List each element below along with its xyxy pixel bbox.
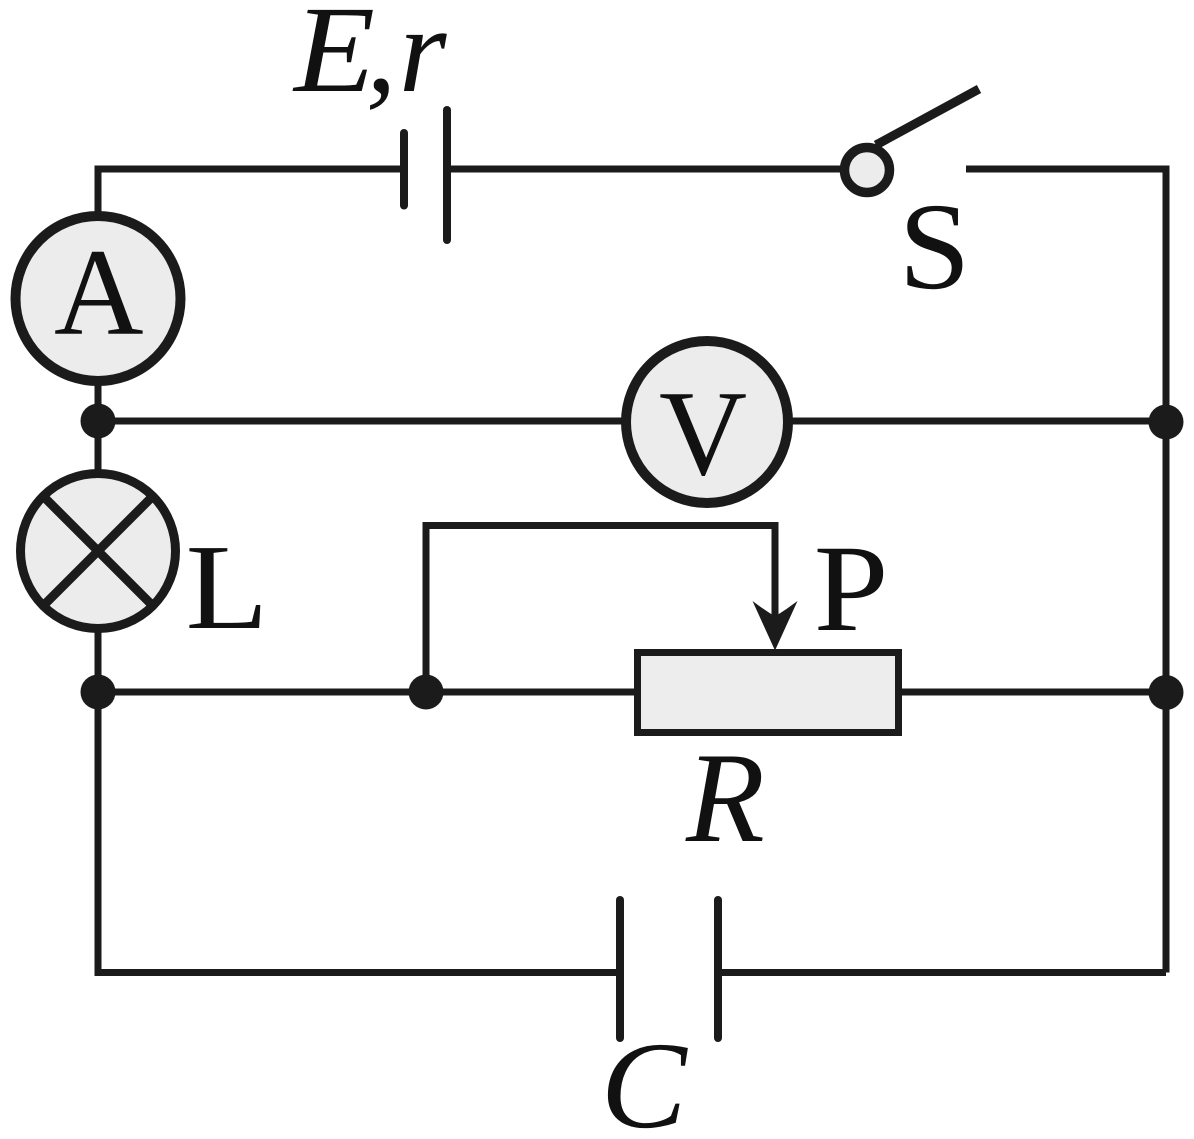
wire junction to lamp <box>95 421 102 473</box>
wire bottom rail left <box>98 689 620 973</box>
wiper arrow P <box>753 601 798 651</box>
wire right rail <box>1163 166 1170 973</box>
lamp L circle with cross <box>21 474 176 629</box>
wire lamp to lower junction <box>95 629 102 695</box>
wire wiper bracket <box>426 526 775 693</box>
battery E,r plates <box>404 110 447 240</box>
label E,r <box>292 0 447 118</box>
wire battery to switch <box>447 166 843 173</box>
node dot below ammeter <box>81 404 116 439</box>
switch S circle <box>845 148 890 193</box>
wire top-left horizontal (battery left lead) <box>98 166 404 173</box>
svg-text:,: , <box>366 0 397 118</box>
resistor R box <box>638 653 899 733</box>
switch S lever <box>876 89 979 145</box>
wire left vertical from top wire to ammeter <box>95 166 102 217</box>
voltmeter V circle <box>626 341 788 503</box>
svg-text:P: P <box>814 520 889 657</box>
wire ammeter to middle junction <box>95 380 102 421</box>
node dot right lower <box>1149 675 1184 710</box>
node dot right middle <box>1149 405 1184 440</box>
svg-text:L: L <box>186 519 269 654</box>
svg-text:V: V <box>659 366 747 501</box>
ammeter A circle <box>16 216 181 381</box>
svg-text:C: C <box>601 1017 689 1139</box>
node dot below lamp <box>81 675 116 710</box>
svg-text:S: S <box>899 178 971 315</box>
wire lower-middle horizontal (rheostat row) <box>98 689 1166 696</box>
capacitor C plates <box>620 900 718 1038</box>
wire middle horizontal (voltmeter row) <box>98 418 1166 425</box>
svg-text:r: r <box>399 0 447 118</box>
node dot at bracket bottom <box>409 675 444 710</box>
wire switch to top-right corner <box>966 166 1166 173</box>
svg-text:E: E <box>292 0 375 118</box>
svg-text:A: A <box>54 224 144 361</box>
wire bottom rail right <box>718 969 1166 976</box>
svg-text:R: R <box>685 726 765 869</box>
